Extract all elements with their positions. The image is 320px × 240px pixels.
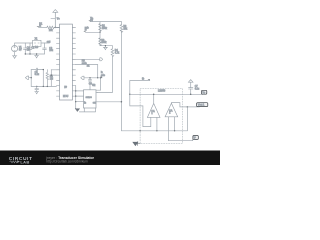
voltage source V1 — [12, 46, 18, 52]
supply flag V+ — [88, 18, 93, 22]
U1 inner text 1 — [64, 87, 67, 89]
capacitor C5 below — [35, 86, 39, 91]
ground on rail — [34, 54, 38, 58]
capacitor C4 inline — [36, 68, 37, 71]
box X1 — [33, 40, 41, 46]
junction divider — [99, 32, 101, 34]
svg-text:Vout 1: Vout 1 — [198, 104, 205, 107]
ground rail — [25, 53, 44, 55]
wire U1 pin to U2 pin2 — [76, 95, 84, 97]
svg-text:0.1u: 0.1u — [195, 89, 200, 91]
loop bottom wire — [31, 85, 56, 87]
port P2 — [81, 76, 84, 79]
junction long vertical / U2 out — [121, 101, 123, 103]
capacitor C1 — [23, 43, 27, 54]
U2 inner text — [86, 97, 93, 99]
loop right vertical — [50, 70, 52, 87]
X1 label above — [35, 39, 39, 41]
C6 label — [89, 83, 93, 85]
wire X1 to node — [41, 42, 50, 44]
node flag at wire end — [47, 41, 51, 44]
V+ flag over cap — [188, 80, 193, 83]
svg-text:http://circuitlab.com/c6mrkum: http://circuitlab.com/c6mrkum — [46, 159, 88, 163]
wire loop to pin2 — [51, 74, 56, 76]
junction loop/rail — [129, 94, 131, 96]
wire U1 pin via elbow — [75, 86, 77, 109]
capacitor C6 — [88, 78, 91, 90]
long vertical from R2 top wire — [120, 22, 122, 25]
wire loop to pin — [51, 69, 56, 71]
C3 label — [49, 48, 54, 52]
net flag right of U1 — [83, 27, 89, 33]
loop top wire — [31, 69, 43, 71]
wire junction to R3 — [99, 32, 101, 37]
C7 label — [195, 86, 200, 90]
ground tap — [103, 46, 107, 50]
svg-text:MCU: MCU — [63, 96, 69, 98]
C2 label — [31, 47, 35, 49]
wire U1 pin elbow down — [76, 65, 98, 78]
wire V+ to R4 top — [91, 21, 122, 23]
junction gnd tap — [105, 45, 106, 46]
resistor R3 vertical — [99, 38, 102, 46]
footer logo squiggle — [10, 161, 19, 163]
wire U1 pin to U2 pin1 — [76, 90, 84, 92]
port P3 — [100, 58, 103, 61]
junction R1 / flag pole — [55, 27, 57, 29]
capacitor C3 — [43, 43, 47, 54]
capacitor C7 — [189, 82, 193, 94]
R2 label — [102, 26, 108, 30]
svg-text:rf: rf — [85, 30, 87, 32]
R5 label — [50, 76, 54, 80]
R1 value label — [49, 30, 54, 32]
svg-text:5V: 5V — [19, 49, 22, 51]
junction loop right — [51, 74, 52, 75]
OA2 inner label — [169, 110, 173, 115]
junction rail OA1 — [153, 94, 155, 96]
junction C2 rail — [29, 53, 30, 54]
wire R4 down to U2 pin — [98, 57, 113, 93]
port P1 — [25, 76, 28, 79]
long vertical wire down — [121, 31, 187, 131]
IC U1 — [56, 24, 75, 100]
svg-text:0.1u: 0.1u — [35, 74, 40, 76]
opamp block dashed box LM358 — [140, 88, 182, 143]
junction rail bottom left — [139, 130, 140, 131]
U1 inner text 2 — [63, 96, 69, 98]
junction port — [31, 77, 32, 78]
junction loop top — [43, 69, 44, 70]
R1 name label — [39, 23, 43, 27]
U2 right pin wires — [96, 92, 98, 94]
R1 flag — [37, 26, 39, 27]
wire to U1 pin1 — [55, 26, 59, 28]
wire elbow to U2 pin3 — [76, 101, 84, 103]
junction elbow crossings — [75, 90, 76, 91]
svg-text:sense: sense — [86, 97, 93, 99]
resistor R2 vertical — [99, 22, 102, 33]
supply rail — [130, 93, 204, 95]
svg-text:out: out — [47, 41, 51, 44]
OA1 minus input — [156, 117, 158, 130]
ground under V1 — [12, 52, 17, 59]
footer bar — [0, 151, 220, 166]
svg-text:V-: V- — [194, 138, 196, 140]
OA2 output wire — [171, 103, 199, 107]
V1 label — [19, 47, 23, 51]
loop left vertical — [30, 70, 32, 87]
junction rail gnd — [36, 53, 37, 54]
wire R3 to right — [100, 45, 112, 47]
junction output branch — [187, 106, 189, 108]
C1 label — [27, 47, 31, 51]
junction cap rail — [190, 94, 192, 96]
opamp OA2 — [165, 103, 178, 117]
wire P1 to loop — [29, 77, 32, 79]
junction C1 rail — [25, 53, 26, 54]
wire flag elbow down — [130, 81, 151, 127]
output tag — [197, 103, 208, 107]
wire U2 out to long vertical — [96, 101, 121, 103]
R3 label — [101, 40, 107, 44]
junctions bottom — [43, 86, 44, 87]
wire flag to divider — [86, 31, 101, 33]
svg-text:LAB: LAB — [20, 159, 29, 164]
wire P2 to flag — [84, 77, 102, 79]
junction wire B — [97, 77, 98, 78]
label between wires — [82, 61, 88, 65]
supply tick and label — [51, 18, 60, 20]
capacitor C2 — [28, 43, 32, 54]
ground under C5 — [35, 92, 39, 94]
OA1 inner label — [151, 110, 155, 115]
V- tag — [193, 136, 198, 140]
branch down to rail — [186, 107, 188, 131]
branch down to U2 top right pin — [96, 78, 101, 90]
C4 label — [35, 72, 40, 76]
svg-text:LM358: LM358 — [158, 90, 166, 92]
V+ tag at rail end — [202, 90, 207, 94]
U2 label — [92, 85, 96, 87]
svg-text:100k: 100k — [102, 28, 108, 30]
LM358 label — [158, 90, 166, 92]
OA2 inputs — [174, 117, 176, 131]
wire V1 top to box X1 — [15, 43, 33, 46]
net flag top of opamp area — [142, 78, 150, 80]
svg-text:100k: 100k — [101, 42, 107, 44]
power flag top — [53, 10, 58, 28]
ground at elbow bottom — [75, 108, 79, 111]
ground bottom left of box — [133, 142, 140, 146]
net flag at wire end — [100, 72, 106, 78]
wire under U2 bottom pins — [79, 108, 95, 112]
X1 value below — [35, 47, 39, 49]
loop inner branch — [42, 70, 44, 87]
R4 label — [115, 50, 120, 54]
dark label on wire B — [87, 65, 90, 67]
resistor R6 vertical — [120, 25, 123, 33]
resistor R4 vertical — [111, 46, 114, 57]
box U2 — [84, 90, 97, 108]
opamp OA1 — [147, 103, 160, 117]
wire U1 pin to port P3 — [76, 58, 100, 60]
resistor R5 vertical — [46, 70, 48, 87]
OA1 output wire — [153, 94, 155, 103]
junction C6 — [89, 77, 90, 78]
R6 label — [123, 26, 128, 30]
resistor R1 horizontal — [39, 26, 56, 29]
